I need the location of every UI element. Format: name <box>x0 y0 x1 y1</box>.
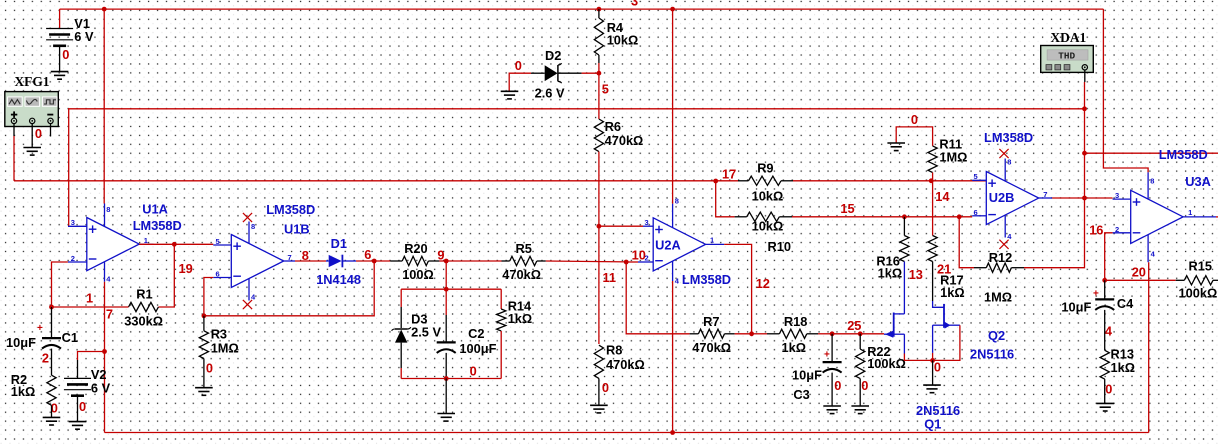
svg-text:0: 0 <box>470 364 477 379</box>
svg-text:13: 13 <box>909 267 923 282</box>
junction node 25 / R22 <box>858 331 863 336</box>
svg-text:1MΩ: 1MΩ <box>984 290 1012 305</box>
svg-text:11: 11 <box>603 270 617 285</box>
node 7 label <box>106 307 113 322</box>
wire R15 leads <box>1176 279 1218 281</box>
svg-text:100μF: 100μF <box>459 341 496 356</box>
pin stub XFG1 plus <box>13 124 15 136</box>
wire V1 top <box>59 9 61 28</box>
pin 7 label U1B <box>288 253 292 262</box>
ground below R13 <box>1096 403 1114 411</box>
wire R4 top lead <box>598 9 600 18</box>
junction bottom rail / U2A pin4 <box>670 430 675 435</box>
label R1 <box>136 286 152 301</box>
svg-text:9: 9 <box>437 248 444 263</box>
wire node14 down to R17 <box>932 181 934 236</box>
wire U2A out (node 12) <box>724 244 751 333</box>
label R11 <box>939 137 962 152</box>
pin 1 label U1A <box>144 236 148 245</box>
svg-text:R7: R7 <box>703 314 719 329</box>
node 0 label at C3 <box>834 378 841 393</box>
junction node 14 <box>929 178 934 183</box>
node 0 label at R22 <box>861 378 868 393</box>
resistor R8 <box>594 345 603 378</box>
label R20 value <box>402 267 434 282</box>
junction V2 branch <box>102 349 107 354</box>
junction C2 ground <box>444 376 449 381</box>
label D3 <box>411 312 427 327</box>
svg-text:0: 0 <box>911 112 918 127</box>
pin 8 label U1B <box>251 222 255 231</box>
svg-text:100Ω: 100Ω <box>402 267 434 282</box>
label R6 value <box>605 133 644 148</box>
svg-text:16: 16 <box>1089 223 1103 238</box>
svg-text:Q1: Q1 <box>924 417 941 432</box>
junction node 5 <box>597 71 602 76</box>
node 19 label <box>179 261 193 276</box>
wire R4 to node5 <box>598 63 600 73</box>
pin 5 label U1B <box>216 237 220 246</box>
pin 1 label U3A <box>1188 208 1192 217</box>
svg-text:R6: R6 <box>605 119 621 134</box>
wire node 7 bottom rail <box>105 432 1149 434</box>
label R5 <box>516 241 532 256</box>
svg-text:R8: R8 <box>606 343 622 358</box>
junction node15 / R12 branch <box>957 214 962 219</box>
node 2 label <box>42 350 49 365</box>
node 0 label at D2 <box>515 58 522 73</box>
no-connect X on U2B pin8 <box>999 149 1008 158</box>
node 8 label <box>302 248 309 263</box>
svg-text:1: 1 <box>710 236 714 245</box>
junction node16 / U2B out <box>1082 196 1087 201</box>
node 1 label <box>86 291 93 306</box>
label R4 <box>607 20 624 35</box>
pin 8 label U1A <box>106 205 110 214</box>
label R11 value <box>939 150 967 165</box>
label V2 <box>91 367 107 382</box>
label V1 value 6 V <box>74 29 94 44</box>
wire box bottom edge <box>401 378 501 380</box>
wire node25 to Q1 gate <box>832 333 884 335</box>
svg-text:D1: D1 <box>331 236 347 251</box>
pin 2 label U1A <box>71 254 75 263</box>
junction box top <box>444 287 449 292</box>
transistor Q2 2N5116 <box>933 304 960 353</box>
wire U3A pin2 net <box>1105 233 1113 280</box>
svg-text:8: 8 <box>675 197 679 206</box>
label U1B <box>284 222 310 237</box>
ground below V2 <box>69 422 87 430</box>
svg-text:C3: C3 <box>793 387 809 402</box>
node 5 label <box>602 81 609 96</box>
wire node6 to R20 <box>374 260 402 262</box>
wire R5 leads <box>502 260 546 262</box>
svg-text:R20: R20 <box>404 241 427 256</box>
wire R3 top <box>203 316 205 331</box>
ground below R3 <box>195 388 213 396</box>
label C1 <box>62 330 78 345</box>
label R9 value <box>752 189 784 204</box>
resistor R5 <box>510 256 537 265</box>
svg-text:6: 6 <box>974 208 978 217</box>
wire R3 bottom <box>203 359 205 388</box>
op-amp U2A <box>638 204 724 281</box>
svg-text:R18: R18 <box>784 314 807 329</box>
wire U2A pin3 from node11 <box>599 225 643 227</box>
pin 1 label U2A <box>710 236 714 245</box>
wire box left upper <box>400 289 402 307</box>
pin 4 label U3A <box>1151 249 1156 258</box>
op-amp U1B <box>213 222 295 301</box>
wire U1B pin6 feedback <box>204 278 213 316</box>
wire R9 leads <box>738 180 793 182</box>
wire XFG1 plus to node 17 line <box>13 136 15 181</box>
node 0 label at R3 <box>206 361 213 376</box>
junction top rail / V1-U1A power <box>102 7 107 12</box>
wire Q2 source to 0 node <box>932 353 934 361</box>
resistor R1 <box>129 302 159 311</box>
junction node 19 <box>172 242 177 247</box>
label U2A <box>655 238 681 253</box>
label U2A value LM358D <box>682 272 731 287</box>
ground below R2 <box>43 417 61 425</box>
node 14 label <box>935 189 950 204</box>
svg-text:5: 5 <box>602 81 609 96</box>
label C4 <box>1117 296 1134 311</box>
wire R10 right to node15 <box>792 216 904 218</box>
wire V2 bottom <box>77 396 79 422</box>
wire C2 ground <box>445 379 447 414</box>
node 0 label at R2 <box>51 401 58 416</box>
wire R22 top lead <box>859 334 861 349</box>
svg-text:100kΩ: 100kΩ <box>1179 286 1218 301</box>
svg-text:C2: C2 <box>468 326 484 341</box>
wire R13 bottom <box>1104 379 1106 403</box>
wire D3 top lead <box>400 307 402 328</box>
wire node16 to U3A pin3 <box>1085 197 1113 199</box>
svg-text:0: 0 <box>602 380 609 395</box>
wire C1 to R2 <box>51 349 53 376</box>
node 4 label <box>1105 324 1113 339</box>
label V2 value <box>91 380 111 395</box>
junction node 12 bottom <box>749 331 754 336</box>
label R2 value <box>11 384 36 399</box>
diode D2 (zener 2.6V) <box>545 63 562 83</box>
svg-text:4: 4 <box>1105 324 1113 339</box>
label R3 <box>211 327 227 342</box>
wire R11 bottom <box>932 173 934 181</box>
label LM358D for U2B <box>984 130 1033 145</box>
junction node16 line y153 <box>1082 151 1087 156</box>
label R3 value <box>211 341 239 356</box>
wire R16 top lead <box>903 217 905 236</box>
pin 4 label U2B <box>1007 232 1012 241</box>
svg-text:7: 7 <box>288 253 292 262</box>
wire Q1 source to 0 node <box>904 354 932 361</box>
svg-text:2: 2 <box>42 350 49 365</box>
node 17 label <box>722 167 736 182</box>
ground below C2 <box>437 414 455 422</box>
node 11 label <box>603 270 617 285</box>
wire node 17 line <box>14 180 738 182</box>
node 12 label <box>756 276 770 291</box>
wire node9 down <box>445 261 447 289</box>
wire R17 to Q2 drain <box>933 262 944 308</box>
wire R12 right to U2B out node <box>1024 198 1085 268</box>
pin 3 label U2A <box>645 218 649 227</box>
junction node 11 / U2A pin3 <box>597 224 602 229</box>
label R15 <box>1189 259 1212 274</box>
resistor R7 <box>698 329 724 338</box>
wire node 19 down to R1 <box>158 244 174 307</box>
label R10 value <box>752 219 784 234</box>
wire R14 bottom lead <box>500 331 502 379</box>
resistor R3 <box>199 331 208 359</box>
wire R6 bottom to node11 <box>598 152 600 227</box>
svg-text:U1B: U1B <box>284 222 310 237</box>
svg-text:LM358D: LM358D <box>984 130 1033 145</box>
pin 8 label U3A <box>1150 176 1154 185</box>
node 0 label at V1 <box>62 47 69 62</box>
label D1 value 1N4148 <box>316 272 361 287</box>
resistor R10 <box>747 212 780 221</box>
label D3 value 2.5 V <box>411 325 441 340</box>
svg-text:1kΩ: 1kΩ <box>508 311 533 326</box>
pin 6 label U1B <box>216 270 220 279</box>
pin 4 label U1B <box>251 293 256 302</box>
svg-text:R12: R12 <box>989 250 1012 265</box>
svg-text:8: 8 <box>302 248 309 263</box>
svg-text:470kΩ: 470kΩ <box>692 340 731 355</box>
label R6 <box>605 119 621 134</box>
svg-text:20: 20 <box>1132 265 1146 280</box>
svg-text:8: 8 <box>106 205 110 214</box>
wire U1A output to U1B pin5 <box>139 243 213 245</box>
junction node 17 / R10 branch <box>713 179 718 184</box>
svg-text:+: + <box>824 350 830 361</box>
svg-text:1kΩ: 1kΩ <box>940 285 965 300</box>
pin 4 label U1A <box>106 275 111 284</box>
label U1A <box>142 202 168 217</box>
svg-text:1MΩ: 1MΩ <box>211 341 239 356</box>
svg-text:10kΩ: 10kΩ <box>607 33 639 48</box>
junction R3 / feedback <box>202 313 207 318</box>
junction node 9 <box>444 259 449 264</box>
svg-text:10kΩ: 10kΩ <box>752 219 784 234</box>
label R16 value <box>878 266 903 281</box>
label C3 value <box>792 367 822 382</box>
label XDA1 <box>1051 30 1087 45</box>
wire node12 to R18 <box>752 333 780 335</box>
label R13 <box>1111 347 1134 362</box>
svg-text:R9: R9 <box>757 161 773 176</box>
label R16 <box>876 254 899 269</box>
svg-text:R10: R10 <box>768 239 791 254</box>
svg-text:8: 8 <box>1150 176 1154 185</box>
capacitor C4 <box>1095 299 1114 310</box>
label U1A value LM358D <box>133 218 182 233</box>
resistor R11 <box>928 146 937 173</box>
node 20 label <box>1132 265 1146 280</box>
svg-text:12: 12 <box>756 276 770 291</box>
resistor R16 <box>900 236 909 262</box>
wire node 16 line (U1A pin3 to XDA1) <box>69 109 1085 227</box>
capacitor C3 <box>823 362 842 373</box>
svg-text:1: 1 <box>144 236 148 245</box>
node 15 label <box>840 201 854 216</box>
svg-text:U2B: U2B <box>989 190 1015 205</box>
label R18 <box>784 314 807 329</box>
label R8 value <box>606 357 645 372</box>
node 13 label <box>909 267 923 282</box>
wire R1 left to node1 <box>52 306 129 308</box>
svg-text:1kΩ: 1kΩ <box>782 340 807 355</box>
svg-text:8: 8 <box>1007 158 1011 167</box>
svg-text:D2: D2 <box>545 48 561 63</box>
wire U2B out to node16 <box>1052 197 1084 199</box>
label XFG1 <box>15 74 50 89</box>
wire node 3 top rail <box>60 8 1104 10</box>
svg-text:1kΩ: 1kΩ <box>878 266 903 281</box>
wire R22 bottom <box>859 379 861 406</box>
node 3 label <box>631 0 638 9</box>
svg-text:2N5116: 2N5116 <box>970 347 1014 362</box>
wire LM358D output line <box>1085 152 1218 154</box>
label R14 value <box>508 311 533 326</box>
svg-text:6: 6 <box>364 247 371 262</box>
node 0 label at R8 <box>602 380 609 395</box>
label R7 value <box>692 340 731 355</box>
pin 8 label U2A <box>675 197 679 206</box>
node 6 label <box>364 247 371 262</box>
resistor R2 <box>47 375 56 405</box>
node 0 label below Q2 <box>934 360 941 375</box>
label V1 <box>74 16 90 31</box>
plus mark C1 <box>37 323 43 334</box>
label R7 <box>703 314 719 329</box>
resistor R17 <box>928 236 937 262</box>
pin stub XFG1 minus <box>50 124 52 137</box>
wire R7 leads <box>690 333 735 335</box>
ground at D2 <box>501 91 519 99</box>
label U3A <box>1185 174 1211 189</box>
ground below R22 <box>851 406 869 414</box>
svg-text:Q2: Q2 <box>988 328 1005 343</box>
wire D1 to node 6 <box>356 260 374 262</box>
wire Q2 gate to 0 node <box>933 325 960 360</box>
wire D3 bottom lead <box>400 343 402 379</box>
svg-text:5: 5 <box>974 172 978 181</box>
resistor R6 <box>594 119 603 152</box>
wire R16 to Q1 drain <box>903 262 905 314</box>
svg-text:0: 0 <box>515 58 522 73</box>
label C2 <box>468 326 484 341</box>
wire node15 to U2B pin6 <box>904 216 972 218</box>
svg-text:R5: R5 <box>516 241 532 256</box>
wire C3 bottom <box>831 373 833 406</box>
capacitor C2 <box>437 342 456 353</box>
resistor R22 <box>856 349 865 378</box>
resistor R9 <box>749 176 782 185</box>
junction node 6 <box>372 259 377 264</box>
node 0 label at R11 <box>911 112 918 127</box>
resistor R4 <box>594 18 603 55</box>
wire C3 top lead <box>831 334 833 362</box>
label D2 value 2.6 V <box>535 86 565 101</box>
svg-text:0: 0 <box>79 399 86 414</box>
wire node17 to R10 <box>716 181 735 217</box>
label R17 <box>940 273 963 288</box>
wire U3A pin8 to top rail <box>1103 9 1148 172</box>
wire node5 down to R6 <box>598 73 600 119</box>
pin 8 label U2B <box>1007 158 1011 167</box>
function generator XFG1 <box>5 92 59 127</box>
junction node 1 <box>49 305 54 310</box>
label R13 value <box>1111 360 1136 375</box>
wire U3A pin4 down <box>1148 262 1150 432</box>
svg-text:2.5 V: 2.5 V <box>411 325 441 340</box>
svg-text:2: 2 <box>1115 225 1119 234</box>
svg-text:1MΩ: 1MΩ <box>939 150 967 165</box>
distortion analyzer XDA1 <box>1041 46 1094 73</box>
junction top rail / R4 <box>597 7 602 12</box>
wire node1 to C1 <box>51 307 53 338</box>
wire feedback to D1 cathode node <box>204 261 374 316</box>
no-connect X on U2B pin4 <box>999 240 1008 249</box>
svg-text:0: 0 <box>206 361 213 376</box>
transistor Q1 2N5116 <box>884 313 904 354</box>
wire U1B out to D1 <box>295 260 326 262</box>
junction 0 node below Q2 <box>930 358 935 363</box>
diode D1 1N4148 <box>326 255 356 268</box>
wire node11 down to R8 <box>598 226 600 344</box>
label R22 <box>867 344 890 359</box>
label Q1 <box>924 417 941 432</box>
wire R12 leads <box>974 267 1024 269</box>
svg-text:3: 3 <box>631 0 638 9</box>
junction top rail / U2A power <box>670 7 675 12</box>
svg-text:1: 1 <box>86 291 93 306</box>
battery V1 <box>46 29 73 46</box>
svg-text:+: + <box>1093 289 1099 300</box>
resistor R14 <box>497 309 506 331</box>
ground below R8 <box>590 405 608 413</box>
label 2N5116 for Q1 <box>916 403 960 418</box>
svg-text:C4: C4 <box>1117 296 1134 311</box>
label R9 <box>757 161 773 176</box>
resistor R13 <box>1100 350 1109 379</box>
label C1 value <box>6 335 36 350</box>
label D2 <box>545 48 561 63</box>
wire U1A pin2 net <box>52 262 68 307</box>
label R8 <box>606 343 622 358</box>
wire R5 to node10 <box>546 260 626 263</box>
svg-text:R3: R3 <box>211 327 227 342</box>
svg-text:8: 8 <box>251 222 255 231</box>
resistor R12 <box>986 263 1011 272</box>
wire C2 top lead <box>445 289 447 342</box>
wire V2 branch <box>78 352 105 379</box>
node 7 power rail (U1A pin4) <box>104 282 106 433</box>
svg-text:7: 7 <box>1043 190 1047 199</box>
node 0 label in box <box>470 364 477 379</box>
svg-text:U2A: U2A <box>655 238 681 253</box>
wire V1 bottom <box>59 46 61 72</box>
wire node 17 line right of R9 <box>793 180 931 182</box>
svg-text:3: 3 <box>1115 191 1119 200</box>
svg-text:THD: THD <box>1058 51 1075 62</box>
